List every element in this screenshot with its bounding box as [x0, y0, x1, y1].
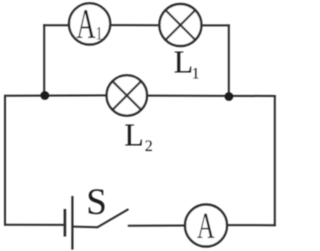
- lamp L2: [107, 75, 147, 115]
- wire left edge (down the left side): [4, 95, 6, 226]
- svg-text:1: 1: [192, 66, 200, 83]
- battery cell: short thick negative plate: [64, 209, 67, 237]
- svg-text:A: A: [76, 1, 96, 47]
- svg-text:L: L: [124, 116, 144, 152]
- wire middle right (L2 to right edge): [146, 95, 276, 97]
- wire ammeter A to bottom-right corner: [226, 224, 276, 226]
- switch S blade: [97, 209, 129, 228]
- node junction right: [225, 92, 234, 101]
- svg-text:1: 1: [96, 22, 103, 44]
- label L2: [124, 116, 152, 155]
- node junction left: [40, 91, 49, 100]
- ammeter A: [185, 205, 227, 247]
- wire top branch right (L1 to top-right corner): [201, 24, 230, 26]
- wire middle left (left edge to lamp L2): [5, 94, 108, 96]
- label L1: [174, 43, 200, 82]
- wire top-left riser (left node up to top branch): [43, 24, 45, 96]
- wire top-right drop (corner down to right node): [228, 24, 230, 96]
- svg-text:L: L: [174, 43, 194, 79]
- svg-text:S: S: [86, 182, 107, 223]
- lamp L1: [159, 4, 201, 46]
- wire battery to switch pivot: [74, 226, 98, 229]
- wire right edge (right node down to bottom): [274, 95, 276, 226]
- wire switch contact to ammeter A: [128, 225, 186, 227]
- wire bottom left (left corner to battery): [4, 224, 65, 226]
- wire top branch left (corner to ammeter A1): [43, 24, 70, 26]
- ammeter A1: [69, 1, 110, 47]
- svg-text:2: 2: [145, 138, 153, 155]
- svg-text:A: A: [197, 205, 215, 246]
- wire top branch middle (A1 to lamp L1): [110, 24, 161, 26]
- battery cell: long thin positive plate: [71, 196, 73, 250]
